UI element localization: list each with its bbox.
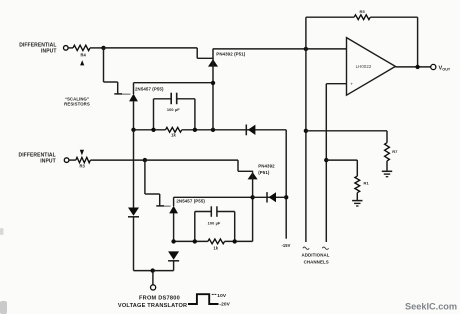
wire node A to Q1 step: [104, 47, 198, 49]
transistor Q4 arrow: [169, 206, 178, 214]
break mark rail 1: [303, 247, 309, 249]
junction bus1-Q2: [131, 128, 135, 132]
capacitor C1 left lead up: [153, 99, 155, 130]
svg-text:INPUT: INPUT: [41, 48, 57, 54]
diode D1 cathode bar: [245, 125, 247, 136]
wire D3 to bottom wire: [133, 217, 135, 271]
capacitor C1 plates: [170, 93, 172, 105]
svg-text:2N5457 (P55): 2N5457 (P55): [135, 86, 164, 91]
wire gate2 horizontal: [145, 193, 160, 195]
junction -15V rail / diode row: [284, 195, 288, 199]
svg-text:R7: R7: [392, 149, 398, 154]
label +10V level: [212, 293, 214, 295]
break mark rail 2: [322, 247, 328, 249]
junction bus2-Q4: [171, 239, 175, 243]
wire gate step down from node A: [103, 48, 105, 82]
wire Q1 to op-amp +: [213, 48, 347, 50]
arrow marker under R4: [80, 60, 84, 65]
arrow marker above R3: [80, 150, 84, 156]
svg-text:(P51): (P51): [258, 170, 270, 175]
junction Q1-drain wire: [211, 81, 215, 85]
diode D4 (right, pointing down): [168, 251, 179, 259]
junction feedback node: [304, 47, 308, 51]
transistor Q2 2N5457 channel top wire: [133, 83, 135, 94]
terminal input 1 (open circle): [64, 46, 69, 51]
ground R7: [382, 170, 392, 172]
label DIFFERENTIAL INPUT (upper): [19, 43, 56, 55]
wire gate step horizontal: [104, 81, 118, 83]
junction bus1-C1 right: [193, 128, 197, 132]
svg-text:2N5457 (P55): 2N5457 (P55): [176, 199, 205, 204]
svg-text:R1: R1: [364, 181, 370, 186]
wire R7 top lead: [386, 131, 388, 143]
capacitor C2 left lead: [194, 212, 196, 242]
ground R1: [352, 200, 362, 202]
terminal FROM DS7800 (open circle): [151, 285, 156, 290]
svg-text:R3: R3: [79, 164, 85, 169]
svg-text:1k: 1k: [171, 133, 176, 138]
resistor R4: [73, 45, 90, 50]
capacitor C2 top left: [195, 211, 211, 213]
svg-text:R4: R4: [80, 52, 86, 57]
wire R1 bottom lead: [356, 193, 358, 201]
resistor R5: [354, 15, 370, 20]
junction bus2-C2 right: [233, 239, 237, 243]
svg-text:VOLTAGE TRANSLATOR: VOLTAGE TRANSLATOR: [118, 303, 187, 309]
svg-text:CHANNELS: CHANNELS: [304, 260, 329, 265]
wire feedback top right: [370, 16, 417, 18]
pulse waveform symbol: [188, 294, 219, 304]
svg-text:INPUT: INPUT: [40, 158, 56, 164]
transistor Q3 channel: [252, 172, 254, 241]
svg-text:10V: 10V: [217, 293, 227, 299]
diode D2 cathode bar: [266, 192, 268, 202]
diode D1 triangle: [248, 125, 256, 135]
svg-text:ADDITIONAL: ADDITIONAL: [301, 253, 329, 258]
wire op-amp output: [395, 66, 430, 68]
svg-text:R5: R5: [360, 9, 366, 14]
wire rail2 to R1: [326, 159, 357, 161]
resistor R3: [76, 157, 91, 162]
scan smudge bottom-left: [0, 228, 7, 314]
transistor Q4 channel top: [173, 197, 175, 206]
svg-text:1k: 1k: [213, 246, 218, 251]
wire stem to terminal: [152, 271, 154, 285]
diode D2 triangle: [269, 192, 276, 202]
wire diode row to -15V: [253, 196, 287, 198]
wire gate2 bar to channel: [164, 205, 171, 207]
capacitor C2 top right: [217, 211, 235, 213]
svg-text:PN4392: PN4392: [258, 164, 275, 169]
wire channel rail 2 (from - node): [325, 84, 327, 242]
junction bottom terminal: [151, 268, 155, 272]
gate bar of Q3: [238, 170, 253, 172]
resistor 1k (lower): [208, 239, 225, 244]
wire R3 to node B: [90, 159, 144, 161]
junction Q3-diode row: [250, 195, 254, 199]
wire R1 top lead: [356, 160, 358, 176]
capacitor C1 top lead right: [177, 98, 195, 100]
wire gate2 down 2: [159, 194, 161, 206]
junction output-feedback: [415, 65, 419, 69]
transistor Q2 arrow: [129, 94, 138, 102]
wire R4 to node A: [90, 47, 104, 49]
wire feedback down to output: [417, 17, 419, 67]
op-amp U1 LH0022: [347, 38, 396, 96]
capacitor C2 plates: [210, 206, 212, 217]
wire terminal2 to R3: [69, 159, 76, 161]
wire gate bar to channel: [122, 93, 131, 95]
capacitor C1 right lead down: [194, 99, 196, 130]
wire D3 top from bus1: [133, 130, 135, 208]
junction rail1-R7: [304, 129, 308, 133]
wire terminal1 to R4: [68, 47, 73, 49]
transistor Q4 channel to bus2: [173, 213, 175, 241]
resistor R7: [385, 143, 390, 161]
wire feedback up: [305, 17, 307, 49]
wire Q2 drain to Q1 drain: [134, 82, 214, 84]
capacitor C2 right lead: [234, 212, 236, 242]
svg-text:100 µF: 100 µF: [208, 220, 221, 225]
transistor Q3 arrow: [248, 172, 258, 179]
wire Q4 drain row (y=197): [174, 196, 253, 198]
wire - input (bottom) corner: [326, 83, 346, 85]
wire node B to Q3 step: [145, 159, 238, 161]
wire Q3 gate step down: [237, 160, 239, 171]
wire gate2 down from node B: [144, 160, 146, 194]
gate bar of Q1: [197, 57, 213, 59]
svg-text:+: +: [350, 82, 353, 87]
label DIFFERENTIAL INPUT (lower): [18, 152, 55, 164]
svg-text:“SCALING”: “SCALING”: [65, 96, 90, 101]
resistor R1: [355, 176, 360, 193]
svg-text:-20V: -20V: [219, 302, 230, 308]
label ADDITIONAL CHANNELS: [301, 253, 329, 265]
wire rail1 to R7: [306, 130, 387, 132]
wire R7 bottom lead: [386, 161, 388, 171]
terminal input 2 (open circle): [64, 158, 69, 163]
node B junction: [143, 158, 147, 162]
transistor Q1 channel: [212, 49, 214, 130]
wire bus2 right: [225, 240, 253, 242]
gate bar of Q2 (2N5457): [114, 93, 122, 95]
transistor Q1 arrow: [208, 59, 218, 67]
node A junction: [101, 46, 105, 50]
resistor 1k (upper): [166, 127, 182, 132]
wire bus1 right segment: [182, 129, 286, 131]
junction rail2-R1: [324, 158, 328, 162]
gate bar of Q4 (2N5457 lower): [156, 205, 164, 207]
wire bottom connecting: [134, 270, 174, 272]
transistor Q2 channel to bus: [133, 101, 135, 130]
wire channel rail 1 (from + node): [305, 49, 307, 242]
svg-text:PN4392 (P51): PN4392 (P51): [216, 51, 245, 56]
wire Q1 gate step down: [196, 48, 198, 58]
label SCALING RESISTORS: [64, 96, 90, 106]
wire feedback top left: [306, 16, 354, 18]
junction bus1-C1 left: [151, 128, 155, 132]
svg-text:100 µF: 100 µF: [167, 107, 180, 112]
svg-text:FROM DS7800: FROM DS7800: [139, 296, 180, 302]
svg-text:SeekIC.com: SeekIC.com: [405, 302, 457, 312]
junction bus1-Q1: [211, 128, 215, 132]
svg-text:LH0022: LH0022: [356, 64, 372, 69]
junction bus2-C2 left: [193, 239, 197, 243]
wire bus1 corner to -15V rail: [285, 130, 287, 239]
terminal Vout (open circle): [431, 64, 436, 69]
wire D4 to bottom wire: [173, 261, 175, 271]
svg-text:-15V: -15V: [281, 243, 290, 248]
wire gate step down 2: [117, 82, 119, 94]
svg-text:RESISTORS: RESISTORS: [64, 102, 90, 107]
diode D3 (left, pointing down): [128, 208, 139, 216]
wire bus2 left: [174, 240, 208, 242]
wire bus1 left segment: [134, 129, 166, 131]
capacitor C1 top lead left: [154, 98, 171, 100]
